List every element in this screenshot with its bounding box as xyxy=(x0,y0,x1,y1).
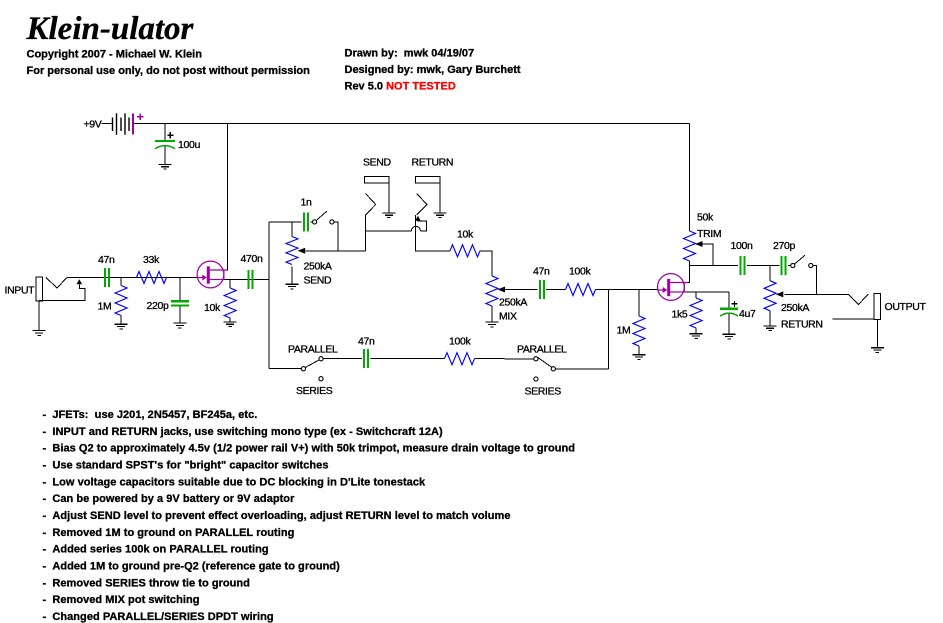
svg-text:MIX: MIX xyxy=(499,311,517,323)
svg-text:10k: 10k xyxy=(457,229,474,241)
svg-text:- INPUT and RETURN jacks, use: - INPUT and RETURN jacks, use switching … xyxy=(43,426,444,438)
svg-text:Klein-ulator: Klein-ulator xyxy=(26,11,195,47)
svg-text:SEND: SEND xyxy=(304,275,333,287)
svg-text:OUTPUT: OUTPUT xyxy=(885,301,927,313)
svg-text:- Can be powered by a 9V batt: - Can be powered by a 9V battery or 9V a… xyxy=(43,493,296,505)
svg-text:PARALLEL: PARALLEL xyxy=(517,344,567,356)
svg-text:100k: 100k xyxy=(449,336,471,348)
svg-text:1n: 1n xyxy=(301,197,312,209)
svg-text:- Removed SERIES throw tie to: - Removed SERIES throw tie to ground xyxy=(43,577,250,589)
svg-text:+9V: +9V xyxy=(84,119,102,131)
svg-text:SEND: SEND xyxy=(363,157,392,169)
svg-text:270p: 270p xyxy=(773,240,795,252)
svg-text:47n: 47n xyxy=(98,254,115,266)
svg-text:33k: 33k xyxy=(143,254,160,266)
svg-text:250kA: 250kA xyxy=(304,261,332,273)
svg-text:Drawn by: mwk 04/19/07: Drawn by: mwk 04/19/07 xyxy=(345,48,475,60)
svg-text:47n: 47n xyxy=(358,336,375,348)
svg-text:- Added series 100k on PARALL: - Added series 100k on PARALLEL routing xyxy=(43,544,269,556)
svg-text:- Removed MIX pot switching: - Removed MIX pot switching xyxy=(43,594,200,606)
svg-text:1M: 1M xyxy=(617,325,631,337)
svg-text:100k: 100k xyxy=(569,266,591,278)
svg-text:Designed by: mwk, Gary Burchet: Designed by: mwk, Gary Burchett xyxy=(345,64,521,76)
svg-text:- Use standard SPST's for "br: - Use standard SPST's for "bright" capac… xyxy=(43,460,329,472)
svg-text:- Removed 1M to ground on PAR: - Removed 1M to ground on PARALLEL routi… xyxy=(43,527,295,539)
svg-text:250kA: 250kA xyxy=(499,297,527,309)
svg-text:RETURN: RETURN xyxy=(781,319,823,331)
svg-text:470n: 470n xyxy=(241,253,263,265)
svg-text:10k: 10k xyxy=(204,302,221,314)
svg-text:- Bias Q2 to approximately 4.: - Bias Q2 to approximately 4.5v (1/2 pow… xyxy=(43,443,576,455)
svg-text:47n: 47n xyxy=(533,266,550,278)
svg-text:TRIM: TRIM xyxy=(697,228,721,240)
svg-text:220p: 220p xyxy=(147,300,169,312)
svg-text:250kA: 250kA xyxy=(781,302,809,314)
svg-text:Rev 5.0 NOT TESTED: Rev 5.0 NOT TESTED xyxy=(345,81,456,93)
svg-text:Copyright 2007 - Michael W. Kl: Copyright 2007 - Michael W. Klein xyxy=(27,49,203,61)
svg-text:100u: 100u xyxy=(178,139,200,151)
svg-text:4u7: 4u7 xyxy=(739,308,756,320)
svg-text:1k5: 1k5 xyxy=(672,309,688,321)
svg-text:SERIES: SERIES xyxy=(525,386,562,398)
svg-text:RETURN: RETURN xyxy=(412,157,454,169)
svg-text:INPUT: INPUT xyxy=(5,285,36,297)
svg-text:1M: 1M xyxy=(98,301,112,313)
svg-text:50k: 50k xyxy=(697,212,714,224)
svg-text:PARALLEL: PARALLEL xyxy=(288,344,338,356)
svg-text:For personal use only, do not: For personal use only, do not post witho… xyxy=(27,65,311,77)
svg-text:- Low voltage capacitors suit: - Low voltage capacitors suitable due to… xyxy=(43,476,426,488)
svg-text:100n: 100n xyxy=(731,240,753,252)
svg-text:- Adjust SEND level to preven: - Adjust SEND level to prevent effect ov… xyxy=(43,510,511,522)
svg-text:SERIES: SERIES xyxy=(296,385,333,397)
svg-text:- Added 1M to ground pre-Q2 (: - Added 1M to ground pre-Q2 (reference g… xyxy=(43,561,341,573)
svg-text:- Changed PARALLEL/SERIES DPD: - Changed PARALLEL/SERIES DPDT wiring xyxy=(43,611,274,623)
svg-text:- JFETs: use J201, 2N5457, B: - JFETs: use J201, 2N5457, BF245a, etc. xyxy=(43,409,258,421)
